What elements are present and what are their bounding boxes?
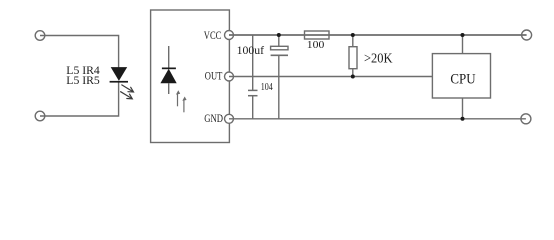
photodiode D2 incident arrow 2 (183, 100, 185, 113)
capacitor C2 104 bottom lead (252, 96, 254, 119)
junction dot at CPU/VCC (461, 33, 465, 37)
wire CPU bottom to GND (462, 98, 464, 119)
LED D1 emission arrow 1 (122, 85, 133, 92)
wire VCC rail (229, 34, 527, 36)
wire VCC to CPU top (462, 35, 464, 54)
LED D1 triangle (111, 67, 128, 81)
svg-text:L5 IR5: L5 IR5 (66, 73, 100, 87)
junction dot at R2/OUT (351, 75, 355, 79)
terminal J1 top-left (35, 31, 45, 41)
svg-text:100uf: 100uf (237, 43, 265, 57)
CPU box U2 (432, 54, 490, 98)
capacitor C2 104 top plate (248, 89, 258, 91)
terminal J4 bottom-right (521, 114, 531, 124)
resistor R1 100 body (305, 31, 330, 39)
wire LED cathode to bottom corner to J2 (40, 82, 119, 116)
junction dot at C1/VCC (277, 33, 281, 37)
capacitor C2 104 bottom plate (248, 95, 258, 97)
photodiode D2 bottom stub (168, 83, 170, 94)
svg-text:CPU: CPU (450, 72, 476, 88)
pin OUT circle (225, 72, 234, 81)
resistor R2 20K bottom lead (352, 69, 354, 77)
svg-text:OUT: OUT (205, 71, 223, 83)
wire OUT rail (229, 76, 432, 78)
pin GND circle (225, 114, 234, 123)
optocoupler box U1 (151, 10, 230, 143)
photodiode D2 triangle (160, 69, 176, 84)
resistor R2 20K top lead (352, 35, 354, 47)
capacitor C1 100uf bottom plate (271, 54, 288, 56)
resistor R2 20K body (349, 47, 357, 69)
junction dot at R2/VCC (351, 33, 355, 37)
pin VCC circle (225, 31, 234, 40)
svg-text:GND: GND (204, 113, 223, 125)
svg-text:>20K: >20K (364, 52, 393, 67)
capacitor C2 104 top lead (252, 35, 254, 90)
LED D1 cathode bar (110, 81, 128, 83)
photodiode D2 cathode bar (162, 68, 176, 70)
svg-text:100: 100 (307, 39, 325, 51)
terminal J3 top-right (522, 30, 532, 40)
photodiode D2 top stub (168, 46, 170, 68)
wire J1 to LED top corner (40, 36, 119, 68)
junction dot at CPU/GND (461, 117, 465, 121)
LED D1 emission arrow 2 (121, 92, 132, 99)
capacitor C1 100uf top lead (278, 35, 280, 46)
svg-text:104: 104 (261, 82, 273, 93)
capacitor C1 100uf bottom lead (278, 55, 280, 119)
wire GND rail (229, 118, 526, 120)
terminal J2 bottom-left (35, 111, 45, 121)
capacitor C1 100uf top plate (271, 46, 288, 50)
svg-text:VCC: VCC (204, 30, 222, 42)
photodiode D2 incident arrow 1 (177, 94, 179, 107)
